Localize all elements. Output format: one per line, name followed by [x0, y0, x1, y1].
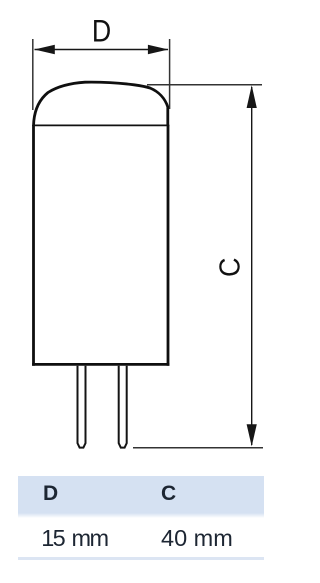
right pin	[119, 366, 127, 448]
svg-text:C: C	[214, 258, 246, 277]
dimension table	[18, 476, 264, 560]
extension line left of D	[32, 39, 34, 110]
header cell D	[43, 482, 58, 506]
value 40 mm	[161, 525, 233, 552]
dimension line D	[35, 49, 169, 51]
lamp body bottom	[32, 363, 169, 366]
header fade edge	[18, 513, 264, 518]
extension line top of C	[147, 84, 262, 86]
arrowhead D left	[34, 45, 55, 54]
table bottom rule	[18, 557, 264, 560]
arrowhead C down	[247, 424, 257, 446]
lamp body right wall	[167, 125, 170, 366]
svg-text:D: D	[92, 14, 111, 48]
header cell C	[161, 482, 176, 506]
extension line bottom of C	[133, 447, 263, 449]
seam line between dome and body	[32, 124, 169, 126]
extension line right of D	[169, 39, 171, 109]
table header row	[18, 476, 264, 513]
arrowhead C up	[247, 85, 257, 108]
arrowhead D right	[148, 45, 169, 54]
lamp body left wall	[32, 125, 35, 366]
left pin	[78, 366, 86, 448]
dimension drawing of G4 LED capsule lamp	[0, 0, 301, 466]
dimension line C	[251, 87, 253, 445]
value 15 mm	[41, 525, 107, 552]
table value row	[18, 518, 264, 557]
lamp silicone dome	[34, 82, 168, 126]
